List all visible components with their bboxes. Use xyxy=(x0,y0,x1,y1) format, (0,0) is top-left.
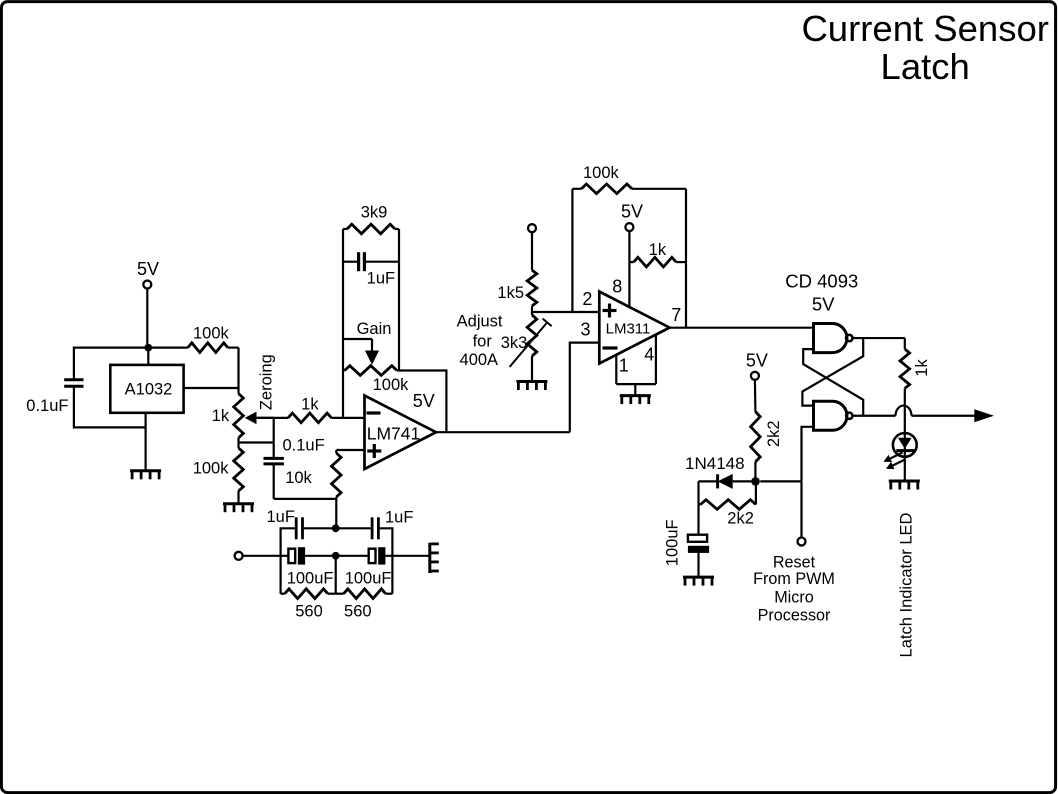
wire 5V to LM311 pin8 xyxy=(628,231,630,307)
svg-text:100uF: 100uF xyxy=(287,570,334,588)
gain wiper arrow xyxy=(343,320,391,365)
svg-text:5V: 5V xyxy=(812,294,835,315)
svg-text:A1032: A1032 xyxy=(125,381,173,399)
svg-text:3: 3 xyxy=(580,320,590,340)
IC A1032 (hall sensor) xyxy=(110,365,183,413)
svg-text:1: 1 xyxy=(619,356,629,376)
NAND gate U3B xyxy=(814,401,853,430)
resistor R16 2k2 (series) xyxy=(699,481,756,527)
resistor R15 2k2 (pull-up) xyxy=(751,380,783,478)
label reset source xyxy=(753,554,835,625)
output arrow xyxy=(974,409,994,422)
potentiometer R2 1k (Zeroing) xyxy=(212,348,276,443)
svg-text:for: for xyxy=(473,333,493,351)
svg-text:From PWM: From PWM xyxy=(753,570,835,588)
terminal (threshold set) xyxy=(528,224,536,232)
wire to LM311 pin 3 xyxy=(570,343,600,433)
svg-text:Zeroing: Zeroing xyxy=(258,354,276,410)
svg-text:400A: 400A xyxy=(460,351,499,369)
svg-text:560: 560 xyxy=(344,602,372,620)
wire feedback right side xyxy=(399,229,446,432)
label adjust for 400A xyxy=(457,313,503,370)
svg-text:Current Sensor: Current Sensor xyxy=(801,8,1049,49)
wire LM311 output xyxy=(670,327,814,329)
comparator U2 LM311 xyxy=(599,292,669,364)
LED D1 (latch indicator) xyxy=(884,432,917,482)
wire junction to latch reset xyxy=(760,480,801,482)
svg-text:100k: 100k xyxy=(373,376,410,394)
wire inverting node up (feedback left) xyxy=(342,229,344,418)
resistor R8 560 (left) xyxy=(281,589,336,621)
pin label 4 xyxy=(644,345,654,365)
node filter mid junction xyxy=(332,552,340,560)
wire 10k bottom to filter xyxy=(335,499,337,528)
capacitor C7 100uF (right, electrolytic) xyxy=(336,547,430,587)
svg-text:3k9: 3k9 xyxy=(361,204,388,222)
svg-text:Gain: Gain xyxy=(357,320,392,338)
capacitor C3 1uF (feedback) xyxy=(343,252,399,287)
power 5V terminal (A1032 supply) xyxy=(137,259,159,289)
ground (reset cap) xyxy=(683,577,714,586)
svg-text:0.1uF: 0.1uF xyxy=(282,436,324,454)
svg-text:1N4148: 1N4148 xyxy=(685,454,745,473)
svg-text:LM311: LM311 xyxy=(606,320,651,337)
label CD 4093 xyxy=(785,271,858,315)
resistor R9 560 (right) xyxy=(336,589,393,621)
svg-text:5V: 5V xyxy=(746,351,768,371)
svg-text:1uF: 1uF xyxy=(385,509,413,527)
svg-text:CD 4093: CD 4093 xyxy=(785,271,858,292)
wire divider tap to LM311 pin2 xyxy=(532,311,599,313)
wire U3B output with hop xyxy=(853,406,976,416)
svg-text:4: 4 xyxy=(644,345,654,365)
diode D2 1N4148 xyxy=(685,454,756,489)
svg-text:100k: 100k xyxy=(583,164,620,182)
pin label 7 xyxy=(671,305,681,325)
svg-text:Reset: Reset xyxy=(773,554,816,572)
power 5V terminal (reset pull-up) xyxy=(746,351,768,380)
ground (zeroing divider) xyxy=(223,504,254,513)
wire pot bottom node xyxy=(239,441,274,443)
wire U3A output xyxy=(853,337,905,339)
svg-text:100k: 100k xyxy=(193,460,230,478)
potentiometer R7 100k (Gain) xyxy=(343,366,409,394)
wire junction to A1032 top xyxy=(147,348,149,365)
svg-text:LM741: LM741 xyxy=(367,424,421,444)
ground (LM311) xyxy=(620,396,651,405)
capacitor C6 100uF (left, electrolytic) xyxy=(287,547,336,587)
ground (LED) xyxy=(889,481,920,490)
capacitor C5 1uF (right) xyxy=(336,509,414,594)
wire filter center tap xyxy=(335,556,337,594)
resistor R12 100k (hysteresis) xyxy=(572,164,686,312)
node A1032 supply junction xyxy=(144,344,152,352)
svg-text:Processor: Processor xyxy=(758,607,831,625)
capacitor C4 1uF (left) xyxy=(266,508,335,594)
pin label 1 xyxy=(619,356,629,376)
label Latch Indicator LED xyxy=(898,512,916,657)
svg-text:1k: 1k xyxy=(301,396,319,414)
svg-text:2k2: 2k2 xyxy=(765,420,783,447)
potentiometer R11 3k3 (adjust) xyxy=(501,315,552,382)
svg-text:7: 7 xyxy=(671,305,681,325)
resistor R14 1k (LED limit) xyxy=(900,338,931,431)
wire LM311 pins 1,4 to ground xyxy=(616,335,656,396)
svg-text:Latch: Latch xyxy=(881,46,970,87)
svg-text:100uF: 100uF xyxy=(345,570,392,588)
wire 5V to junction xyxy=(146,289,148,344)
pin label 3 xyxy=(580,320,590,340)
terminal (reset input) xyxy=(798,538,806,546)
pin label 2 xyxy=(582,289,592,309)
wire reset input column xyxy=(802,427,814,538)
svg-text:5V: 5V xyxy=(413,391,435,411)
pin label 8 xyxy=(612,277,622,297)
resistor R3 100k (zeroing to gnd) xyxy=(193,443,244,504)
wire cap to ground xyxy=(697,553,699,577)
svg-text:560: 560 xyxy=(295,602,323,620)
svg-text:5V: 5V xyxy=(621,201,643,221)
svg-text:1k5: 1k5 xyxy=(497,284,524,302)
NAND gate U3A xyxy=(814,324,853,353)
title text xyxy=(801,8,1049,87)
svg-text:100uF: 100uF xyxy=(663,519,681,566)
wire A1032 ground lead xyxy=(145,413,147,471)
wire LM741 output xyxy=(436,431,570,433)
power 5V terminal (LM311 supply) xyxy=(621,201,643,231)
wire diode branch down xyxy=(697,481,699,534)
node reset junction xyxy=(751,477,760,486)
ground (3k3) xyxy=(516,382,547,391)
svg-text:8: 8 xyxy=(612,277,622,297)
capacitor C1 0.1uF (A1032 bypass) xyxy=(26,348,148,428)
ground (A1032) xyxy=(130,471,161,480)
resistor R10 1k5 xyxy=(497,232,536,315)
wire A1032 out to pot wiper column xyxy=(184,387,239,389)
svg-text:5V: 5V xyxy=(137,259,159,279)
resistor R13 1k (pull-up) xyxy=(629,241,686,267)
resistor R1 100k (offset) xyxy=(148,325,238,353)
svg-text:0.1uF: 0.1uF xyxy=(26,397,68,415)
resistor R5 10k xyxy=(285,450,364,499)
ground (chassis, filter right) xyxy=(430,543,439,573)
svg-text:10k: 10k xyxy=(285,469,312,487)
terminal (sensor input) xyxy=(235,552,243,560)
op-amp U1 LM741 xyxy=(365,391,437,469)
svg-text:1uF: 1uF xyxy=(367,270,395,288)
svg-text:Micro: Micro xyxy=(774,588,814,606)
resistor R4 1k (to LM741 inv input) xyxy=(257,396,365,423)
svg-text:1uF: 1uF xyxy=(266,508,294,526)
wire cross-couple A (U3A out to U3B in) xyxy=(802,338,863,406)
svg-text:100k: 100k xyxy=(193,325,230,343)
svg-text:2k2: 2k2 xyxy=(727,510,754,528)
svg-text:3k3: 3k3 xyxy=(501,334,528,352)
svg-text:Latch Indicator LED: Latch Indicator LED xyxy=(898,512,916,657)
node filter top junction xyxy=(332,524,340,532)
svg-text:1k: 1k xyxy=(913,359,931,377)
svg-text:1k: 1k xyxy=(212,407,230,425)
wire feedback right vertical xyxy=(685,189,687,328)
capacitor C2 0.1uF xyxy=(264,418,337,499)
capacitor C8 100uF (reset delay) xyxy=(663,519,709,566)
svg-text:1k: 1k xyxy=(649,241,667,259)
svg-text:Adjust: Adjust xyxy=(457,313,503,331)
resistor R6 3k9 xyxy=(343,204,399,234)
wire cross-couple B (U3B out to U3A in) xyxy=(803,349,863,416)
wire input to filter xyxy=(243,555,289,557)
svg-text:2: 2 xyxy=(582,289,592,309)
